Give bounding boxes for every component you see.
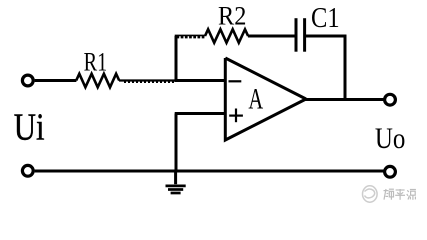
resistor R2 <box>205 29 248 43</box>
op-amp plus sign <box>229 114 243 116</box>
op-amp U1 triangle <box>225 58 306 140</box>
svg-text:Ui: Ui <box>14 106 45 148</box>
svg-text:R1: R1 <box>84 47 108 76</box>
capacitor C1 right plate <box>303 18 306 52</box>
capacitor C1 left plate <box>295 18 298 52</box>
wire output <box>305 98 384 101</box>
svg-text:C1: C1 <box>311 3 340 34</box>
resistor R1 <box>76 74 119 88</box>
wire output riser <box>344 35 347 100</box>
watermark text pin lv yuan <box>384 189 416 200</box>
terminal bottom-right <box>385 166 396 177</box>
op-amp minus sign <box>229 80 242 82</box>
ground <box>166 171 186 193</box>
svg-text:Uo: Uo <box>375 122 406 155</box>
svg-text:A: A <box>248 83 263 116</box>
wire bottom rail <box>35 170 384 173</box>
wire C1 to output riser <box>306 35 346 38</box>
terminal Uo top-right <box>385 94 396 105</box>
wire R2 to C1 <box>248 35 296 38</box>
terminal Ui top-left <box>22 75 33 86</box>
svg-text:R2: R2 <box>218 1 246 30</box>
wire feedback top (dashed segment) <box>175 34 205 36</box>
wire R1 to node (dotted overlay) <box>119 79 176 81</box>
wire input to R1 <box>35 79 77 82</box>
terminal bottom-left <box>22 165 33 176</box>
node A riser (inverting node to feedback) <box>175 36 178 82</box>
wire node to inverting input <box>175 79 226 82</box>
wire non-inverting input <box>175 112 226 115</box>
watermark logo icon <box>363 186 378 202</box>
wire ground riser <box>175 114 178 172</box>
